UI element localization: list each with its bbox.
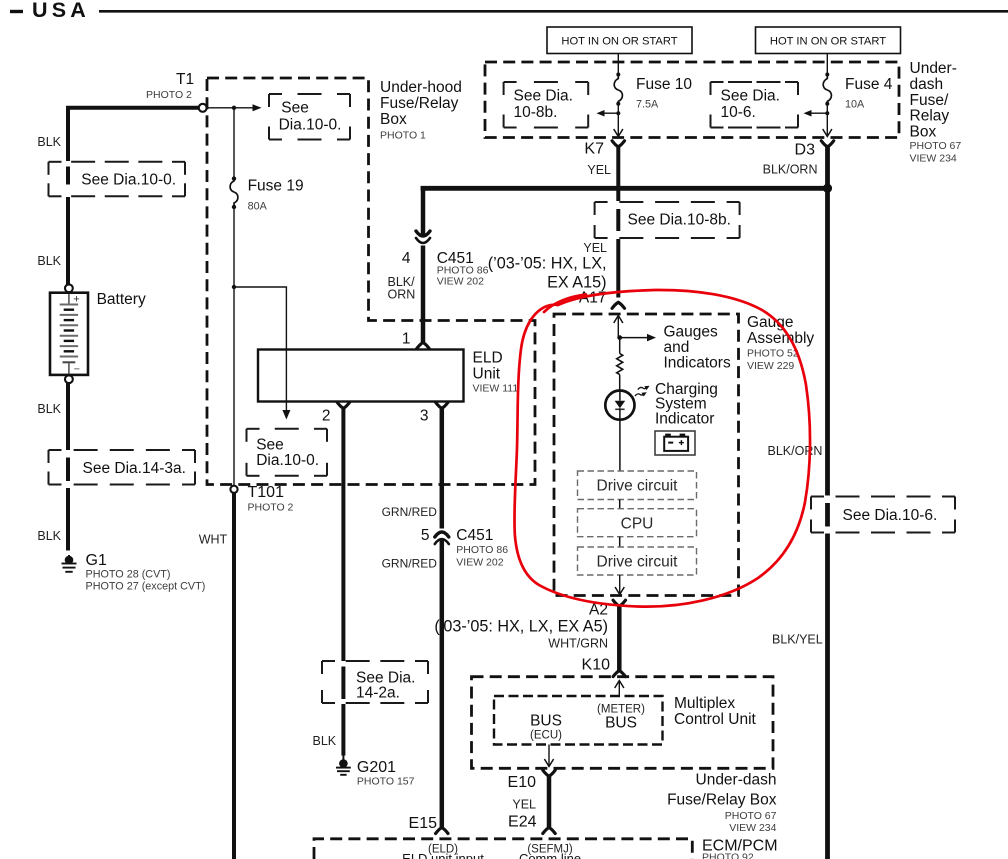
svg-text:BLK/ORN: BLK/ORN (763, 163, 818, 177)
wire YEL K7 down (616, 146, 620, 298)
label G1 (86, 552, 206, 593)
svg-text:PHOTO 52: PHOTO 52 (747, 348, 799, 360)
ELD unit box (258, 350, 464, 402)
svg-text:BLK: BLK (37, 529, 61, 543)
svg-text:VIEW 111: VIEW 111 (473, 383, 519, 395)
label C451 PHOTO 86 VIEW 202 (second) (456, 527, 508, 569)
label (SEFMJ) Comm line (519, 844, 581, 859)
label BUS (ECU) (530, 713, 562, 742)
svg-text:10-8b.: 10-8b. (514, 104, 558, 121)
svg-text:Fuse/Relay: Fuse/Relay (380, 95, 459, 112)
svg-text:VIEW 202: VIEW 202 (437, 276, 484, 288)
svg-text:Box: Box (910, 124, 937, 141)
label E10 (508, 774, 537, 791)
label BLK (battery top wire) (37, 135, 61, 149)
pin number 4 (402, 250, 411, 267)
svg-text:BLK: BLK (37, 402, 61, 416)
gauge assembly box (dashed outline) (554, 314, 739, 596)
svg-text:WHT/GRN: WHT/GRN (548, 637, 608, 651)
node T1 label (146, 71, 194, 101)
svg-text:See Dia.: See Dia. (514, 88, 573, 105)
svg-text:PHOTO 67: PHOTO 67 (910, 140, 962, 152)
svg-text:Fuse/Relay Box: Fuse/Relay Box (667, 792, 777, 809)
svg-text:10-6.: 10-6. (721, 104, 756, 121)
fuse F19 (230, 176, 238, 209)
svg-text:E15: E15 (409, 815, 438, 832)
svg-text:K10: K10 (582, 657, 611, 674)
svg-text:5: 5 (421, 527, 430, 544)
label Charging System Indicator (655, 381, 718, 427)
wire fuse10 to see-dia arrow (597, 104, 621, 117)
svg-text:See Dia.10-0.: See Dia.10-0. (81, 172, 176, 189)
svg-text:Fuse 4: Fuse 4 (845, 76, 893, 93)
svg-text:(ECU): (ECU) (530, 730, 562, 742)
wire BLK ELD pin2 down (341, 407, 345, 661)
see-dia box 14-2a (322, 661, 428, 703)
arrow ECU-bus to E10 inside multiplex box (544, 745, 553, 767)
arrow K7 inside under-dash box (614, 113, 623, 136)
svg-text:YEL: YEL (512, 798, 536, 812)
arrow A2 inside gauge box (615, 575, 624, 595)
svg-text:Dia.10-0.: Dia.10-0. (279, 117, 342, 134)
fuse F19 wire lower (233, 207, 235, 485)
see-dia box 10-6 (top) (711, 82, 799, 128)
connector ELD pin 3 cup (436, 402, 448, 408)
label ('03-'05: HX, LX, EX A5) (434, 618, 608, 636)
svg-text:HOT IN ON OR START: HOT IN ON OR START (770, 36, 886, 48)
wire BLK from battery to T1 (66, 106, 200, 161)
wire LED to battery-icon area (619, 420, 621, 471)
connector A2 cup (613, 600, 625, 606)
svg-text:BLK: BLK (37, 254, 61, 268)
battery (50, 284, 88, 383)
svg-text:Relay: Relay (910, 108, 950, 125)
connector A17 flare (612, 302, 624, 308)
svg-text:CPU: CPU (621, 515, 654, 532)
wire BLK/YEL through see-dia 10-6 (825, 503, 830, 859)
label A2 (589, 602, 608, 619)
label BLK (battery positive) (37, 254, 61, 268)
under-dash fuse/relay box (dashed outline) (485, 62, 899, 138)
terminal T1 open circle (199, 104, 207, 112)
svg-text:4: 4 (402, 250, 411, 267)
label WHT/GRN (548, 637, 608, 651)
svg-text:2: 2 (322, 408, 331, 425)
junction dot bus tee (823, 184, 832, 193)
label (METER) BUS (597, 704, 645, 732)
svg-text:VIEW 202: VIEW 202 (456, 557, 503, 569)
battery warning icon (655, 431, 695, 455)
arrow K10 inside multiplex box (615, 681, 624, 697)
wire thin T1 to See Dia.10-0 arrow (207, 104, 262, 111)
under-hood fuse/relay box (dashed outline) (207, 78, 535, 485)
drive circuit box (upper) (578, 471, 697, 500)
svg-text:YEL: YEL (587, 163, 611, 177)
hot-in-on-or-start box 1 (547, 27, 692, 54)
fuse F4 (823, 73, 831, 106)
svg-text:G201: G201 (357, 759, 396, 776)
svg-text:Unit: Unit (473, 365, 501, 382)
wire junction to resistor (619, 338, 621, 354)
connector K7 cup (612, 141, 624, 147)
drive circuit box (lower) (578, 547, 697, 575)
wire GRN/RED ELD pin3 down (440, 407, 445, 529)
svg-text:C451: C451 (456, 527, 493, 544)
see-dia box 10-0 (top, near T1) (269, 94, 350, 140)
connector K10 flare (613, 671, 625, 677)
wire feed into fuse 10 (617, 54, 619, 76)
label Fuse 4 10A (845, 76, 893, 111)
svg-text:14-2a.: 14-2a. (356, 685, 400, 702)
svg-text:USA: USA (32, 0, 90, 22)
label E24 (508, 814, 537, 831)
see-dia box 14-3a (49, 450, 196, 485)
label D3 BLK/ORN (763, 142, 818, 177)
svg-text:GRN/RED: GRN/RED (382, 557, 438, 571)
pin number 1 (402, 331, 411, 348)
svg-text:ELD unit input: ELD unit input (402, 851, 484, 859)
svg-text:WHT: WHT (199, 533, 228, 547)
junction dot T1 branch (232, 106, 236, 110)
terminal T101 open circle (230, 486, 237, 493)
svg-text:D3: D3 (795, 142, 816, 159)
label Fuse 10 7.5A (636, 76, 692, 111)
svg-text:Indicators: Indicators (664, 354, 731, 371)
see-dia box 10-6 (right) (811, 497, 955, 533)
LED light emission arrows (635, 386, 650, 397)
wire BLK through see-dia 14-2a (341, 667, 345, 756)
svg-text:See Dia.10-6.: See Dia.10-6. (843, 507, 938, 524)
label BLK/ORN (pin4 upper) (388, 275, 416, 302)
wire cpu to drive (619, 537, 621, 547)
LED charging indicator lamp (605, 391, 634, 420)
wire fuse4 to see-dia arrow (804, 104, 830, 117)
connector ELD pin 1 cup (417, 343, 429, 349)
wire to gauges and indicators (620, 334, 656, 342)
svg-text:Fuse 19: Fuse 19 (248, 178, 304, 195)
svg-text:ORN: ORN (388, 288, 416, 302)
multiplex control unit box (dashed outline) (472, 677, 774, 769)
connector ECM E15 cup (436, 828, 448, 834)
label BLK (battery negative) (37, 402, 61, 416)
wire BLK through see-dia 14-3a (66, 458, 70, 551)
see-dia box 10-0 (below ELD pin2) (247, 429, 328, 476)
label YEL (above A17) (583, 241, 607, 255)
svg-text:BLK/YEL: BLK/YEL (772, 633, 823, 647)
fuse F19 wire upper (233, 108, 235, 177)
svg-text:VIEW 234: VIEW 234 (729, 822, 776, 834)
label GRN/RED (lower) (382, 557, 438, 571)
resistor (gauge assembly) (617, 354, 623, 375)
hot-in-on-or-start box 2 (756, 27, 901, 54)
connector ELD pin 2 cup (337, 402, 349, 408)
label A17 (579, 290, 607, 307)
see-dia box 10-8b (top) (504, 82, 589, 128)
annotation red hand-drawn circle (514, 290, 810, 607)
svg-text:VIEW 234: VIEW 234 (910, 153, 957, 165)
label Multiplex Control Unit (674, 695, 757, 728)
svg-text:Drive circuit: Drive circuit (597, 478, 679, 495)
label Under-dash Fuse/Relay Box (lower right) (667, 772, 777, 835)
pin number 3 (420, 408, 429, 425)
svg-text:Dia.10-0.: Dia.10-0. (256, 452, 319, 469)
svg-text:Drive circuit: Drive circuit (597, 554, 679, 571)
svg-text:(’03-’05: HX, LX, EX A5): (’03-’05: HX, LX, EX A5) (434, 618, 608, 636)
pin number 5 (421, 527, 430, 544)
label BLK/YEL (right bus) (772, 633, 823, 647)
svg-text:+: + (73, 294, 79, 306)
pin number 2 (322, 408, 331, 425)
svg-text:VIEW 229: VIEW 229 (747, 360, 794, 372)
label WHT (199, 533, 228, 547)
svg-text:PHOTO 1: PHOTO 1 (380, 130, 426, 142)
label ('03-'05: HX, LX, EX A15) (488, 255, 607, 292)
svg-text:BUS: BUS (530, 713, 562, 730)
see-dia box 10-8b (mid) (595, 202, 740, 238)
svg-text:Battery: Battery (97, 291, 146, 308)
svg-text:80A: 80A (248, 201, 268, 213)
svg-text:E24: E24 (508, 814, 537, 831)
svg-text:ELD: ELD (473, 350, 503, 367)
svg-text:1: 1 (402, 331, 411, 348)
svg-text:See: See (281, 100, 309, 117)
fuse F10 (614, 73, 622, 106)
svg-text:PHOTO 86: PHOTO 86 (456, 544, 508, 556)
label E15 (409, 815, 438, 832)
svg-text:PHOTO 92: PHOTO 92 (702, 852, 754, 859)
svg-text:K7: K7 (584, 141, 604, 158)
connector C451 pin 5 (double chevron) (435, 532, 449, 544)
junction dot gauges branch (617, 335, 622, 340)
label Fuse 19 80A (248, 178, 304, 213)
wire BLK/ORN C451 pin4 vertical lower (421, 246, 426, 343)
svg-text:BLK: BLK (313, 734, 337, 748)
connector E24 cup (543, 828, 555, 834)
label ECM/PCM PHOTO 92 (702, 838, 778, 859)
wire drive to cpu (619, 500, 621, 509)
svg-text:Indicator: Indicator (655, 410, 714, 427)
label G201 (357, 759, 415, 788)
label YEL (E10-E24) (512, 798, 536, 812)
label C451 PHOTO 86 VIEW 202 (437, 250, 489, 288)
svg-text:−: − (74, 364, 80, 376)
svg-text:Comm line: Comm line (519, 851, 581, 859)
svg-text:BLK/ORN: BLK/ORN (768, 444, 823, 458)
label Gauge Assembly PHOTO 52 VIEW 229 (747, 314, 814, 372)
wire YEL E10 to E24 (547, 776, 552, 828)
label Gauges and Indicators (664, 324, 731, 372)
svg-text:See Dia.14-3a.: See Dia.14-3a. (83, 460, 186, 477)
label GRN/RED (upper) (382, 505, 438, 519)
ECM/PCM box (dashed outline) (314, 839, 692, 859)
svg-text:Control Unit: Control Unit (674, 711, 757, 728)
label K10 (582, 657, 611, 674)
svg-text:PHOTO 28 (CVT): PHOTO 28 (CVT) (86, 569, 171, 581)
label T101 (248, 484, 294, 514)
svg-text:10A: 10A (845, 99, 865, 111)
svg-text:Under-dash: Under-dash (696, 772, 777, 789)
svg-text:See Dia.: See Dia. (721, 88, 780, 105)
svg-text:dash: dash (910, 76, 944, 93)
svg-text:7.5A: 7.5A (636, 99, 659, 111)
wire BLK/ORN horizontal bus (421, 186, 828, 191)
svg-text:(’03-’05: HX, LX,: (’03-’05: HX, LX, (488, 255, 607, 273)
connector E10 cup (543, 770, 555, 776)
svg-text:G1: G1 (86, 552, 107, 569)
svg-text:Assembly: Assembly (747, 330, 814, 347)
svg-text:Fuse/: Fuse/ (910, 92, 949, 109)
arrow A17 inside gauge box (614, 316, 623, 338)
svg-text:3: 3 (420, 408, 429, 425)
svg-text:See Dia.10-8b.: See Dia.10-8b. (628, 212, 731, 229)
label BLK (to G1) (37, 529, 61, 543)
label K7 YEL (584, 141, 611, 178)
label BLK/ORN (right bus) (768, 444, 823, 458)
svg-text:T101: T101 (248, 484, 285, 501)
wire BLK through see-dia box (66, 167, 70, 286)
svg-text:BUS: BUS (605, 715, 637, 732)
wire GRN/RED C451 to E15 (440, 540, 445, 827)
ground G201 (336, 756, 351, 775)
bus box inside multiplex (494, 696, 663, 745)
svg-text:Multiplex: Multiplex (674, 695, 735, 712)
svg-text:PHOTO 2: PHOTO 2 (248, 502, 294, 514)
svg-text:PHOTO 2: PHOTO 2 (146, 89, 192, 101)
wire resistor to LED (619, 375, 621, 390)
svg-text:Under-: Under- (910, 60, 957, 77)
label Battery (97, 291, 146, 308)
svg-text:Box: Box (380, 111, 407, 128)
wire BLK/ORN C451 pin4 vertical upper (421, 186, 426, 235)
svg-text:T1: T1 (176, 71, 194, 88)
wire BLK battery negative (66, 383, 70, 450)
ground G1 (62, 555, 77, 572)
wire BLK/ORN D3 down (825, 146, 830, 496)
svg-text:BLK: BLK (37, 135, 61, 149)
svg-text:E10: E10 (508, 774, 537, 791)
arrow D3 inside under-dash box (823, 113, 832, 136)
wire WHT/GRN A2 to K10 (617, 606, 622, 671)
connector C451 pin 4 (double chevron) (416, 231, 430, 243)
connector D3 cup (821, 141, 833, 147)
junction dot fuse19 branch (232, 285, 236, 289)
svg-text:HOT IN ON OR START: HOT IN ON OR START (561, 36, 677, 48)
svg-text:PHOTO 67: PHOTO 67 (725, 810, 777, 822)
wire branch to See Dia.10-0 (lower) (234, 287, 290, 420)
label (ELD) ELD unit input (402, 844, 484, 859)
CPU box (578, 509, 697, 537)
svg-text:GRN/RED: GRN/RED (382, 505, 438, 519)
label Under-hood Fuse/Relay Box (380, 79, 462, 142)
wire feed into fuse 4 (826, 54, 828, 76)
svg-text:Under-hood: Under-hood (380, 79, 462, 96)
label BLK (to G201) (313, 734, 337, 748)
svg-text:Fuse 10: Fuse 10 (636, 76, 692, 93)
svg-text:YEL: YEL (583, 241, 607, 255)
frame header rule (99, 10, 1008, 13)
label Under-dash Fuse/Relay Box (top right) (910, 60, 962, 165)
label ELD Unit VIEW 111 (473, 350, 519, 395)
frame header title USA (10, 0, 90, 22)
wire WHT T101 down (232, 493, 236, 859)
see-dia box 10-0 (left) (49, 162, 186, 197)
svg-text:PHOTO 157: PHOTO 157 (357, 776, 415, 788)
svg-text:PHOTO 27 (except CVT): PHOTO 27 (except CVT) (86, 581, 206, 593)
